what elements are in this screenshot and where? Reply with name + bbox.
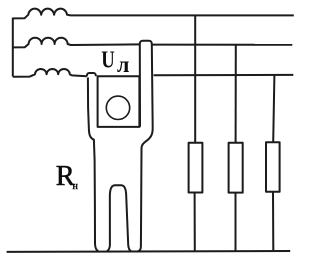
svg-text:л: л <box>117 52 129 77</box>
svg-text:н: н <box>73 181 79 192</box>
svg-text:U: U <box>101 47 115 74</box>
